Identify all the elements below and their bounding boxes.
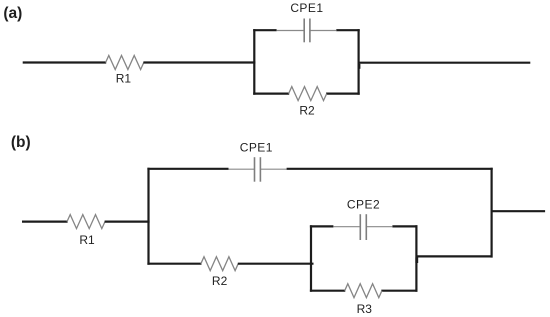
wire: (b) inner box bottom edge left segment [310,290,345,292]
wire: (a) box top edge left segment [253,29,276,31]
node: (a) box right edge [358,29,360,95]
wire: CPE2 thin right lead [366,226,392,228]
svg-text:(b): (b) [11,134,31,151]
wire: (b) output lead [492,210,545,212]
capacitor CPE1 (circuit a) left plate [303,19,305,43]
svg-text:R1: R1 [79,233,95,247]
node: (b) inner box output junction nub [415,258,418,264]
wire: (a) box bottom edge right segment [326,92,360,94]
wire: (b) top rail left segment [147,168,228,170]
svg-text:R3: R3 [357,302,373,316]
wire: (b) inner box top edge left segment [310,225,334,227]
wire: (a) middle lead R1 to box [143,61,255,63]
node: (b) right junction vertical [491,168,493,258]
svg-text:R1: R1 [116,72,132,86]
wire: (a) box top edge right segment [336,29,359,31]
node: (b) inner box left edge [310,225,312,291]
capacitor CPE1 (circuit b) left plate [254,157,256,182]
wire: (b) top rail right segment [287,168,493,170]
resistor R2 (circuit b) [201,257,238,271]
node: (a) box left edge [253,29,255,95]
wire: (b) inner box top edge right segment [392,225,417,227]
wire: (b) lead R2 to inner box [238,263,314,265]
wire: (a) box bottom edge left segment [253,92,289,94]
svg-text:R2: R2 [299,103,315,117]
node: (b) left junction vertical [147,168,149,265]
svg-text:CPE1: CPE1 [290,1,323,15]
capacitor CPE1 (circuit a) right plate [309,19,311,43]
capacitor CPE2 right plate [365,214,367,240]
wire: CPE1 (a) thin left lead [277,30,305,32]
wire: CPE2 thin left lead [333,226,360,228]
capacitor CPE2 left plate [359,214,361,240]
resistor R2 (circuit a) [289,87,327,101]
wire: CPE1 (b) thin left lead [229,168,255,170]
wire: (b) lead R1 to left junction [105,221,150,223]
resistor R3 (circuit b) [345,284,382,298]
wire: (b) inner box bottom edge right segment [381,290,417,292]
resistor R1 (circuit a) [106,56,144,70]
wire: CPE1 (b) thin right lead [260,168,286,170]
svg-text:CPE2: CPE2 [347,197,380,211]
wire: (a) output lead [359,62,531,64]
wire: (b) bottom rail left segment [147,263,201,265]
node: (b) inner box right edge [415,225,417,291]
wire: (b) inner box output lead to right junction [416,255,491,257]
wire: CPE1 (a) thin right lead [310,30,336,32]
resistor R1 (circuit b) [67,215,105,229]
svg-text:R2: R2 [212,274,228,288]
wire: (a) input lead [23,61,107,63]
node: (a) output junction nub [358,64,361,69]
svg-text:CPE1: CPE1 [240,141,273,155]
capacitor CPE1 (circuit b) right plate [259,157,261,182]
svg-text:(a): (a) [3,5,22,22]
wire: (b) input lead [22,221,68,223]
